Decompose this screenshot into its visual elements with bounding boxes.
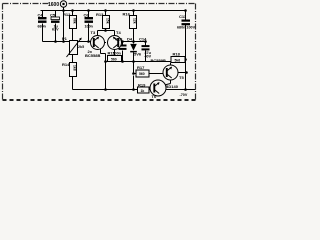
svg-text:T6: T6	[152, 94, 157, 99]
svg-text:BC559B: BC559B	[151, 58, 166, 63]
svg-text:BD140: BD140	[166, 84, 179, 89]
svg-text:C4: C4	[38, 13, 44, 18]
svg-text:T3: T3	[91, 30, 96, 35]
svg-text:C13: C13	[115, 37, 123, 42]
svg-text:R19: R19	[138, 83, 146, 88]
svg-text:P1: P1	[62, 36, 68, 41]
svg-text:R12: R12	[63, 12, 71, 17]
svg-text:12k: 12k	[133, 18, 137, 24]
svg-text:R18: R18	[173, 52, 181, 57]
svg-text:2k5: 2k5	[78, 45, 84, 49]
svg-text:R16: R16	[123, 12, 131, 17]
svg-text:1k8: 1k8	[73, 65, 77, 71]
svg-text:-70V: -70V	[180, 93, 188, 97]
svg-text:T5: T5	[179, 75, 184, 80]
svg-text:100n: 100n	[85, 24, 94, 28]
svg-text:68k: 68k	[73, 18, 77, 24]
svg-text:63V: 63V	[52, 28, 59, 32]
svg-text:D4: D4	[127, 37, 133, 42]
svg-text:R17: R17	[137, 65, 145, 70]
svg-text:R14: R14	[62, 62, 70, 67]
svg-text:C5: C5	[50, 13, 56, 18]
svg-text:C6: C6	[84, 13, 90, 18]
svg-text:BC558B: BC558B	[85, 53, 100, 58]
svg-text:680n: 680n	[38, 24, 47, 28]
svg-text:560: 560	[139, 72, 145, 76]
svg-text:1600: 1600	[48, 2, 59, 8]
svg-text:680n 100V: 680n 100V	[177, 26, 196, 30]
svg-text:C14: C14	[139, 37, 147, 42]
svg-text:15k: 15k	[106, 18, 110, 24]
svg-text:560: 560	[111, 58, 117, 62]
svg-text:1k: 1k	[141, 89, 145, 93]
svg-text:5V6: 5V6	[134, 52, 142, 57]
svg-text:R13: R13	[96, 12, 104, 17]
svg-text:T4: T4	[116, 30, 121, 35]
svg-text:5k6: 5k6	[175, 58, 181, 62]
svg-text:40V: 40V	[145, 55, 152, 59]
svg-text:C11: C11	[179, 14, 187, 19]
svg-text:100n: 100n	[113, 51, 122, 55]
